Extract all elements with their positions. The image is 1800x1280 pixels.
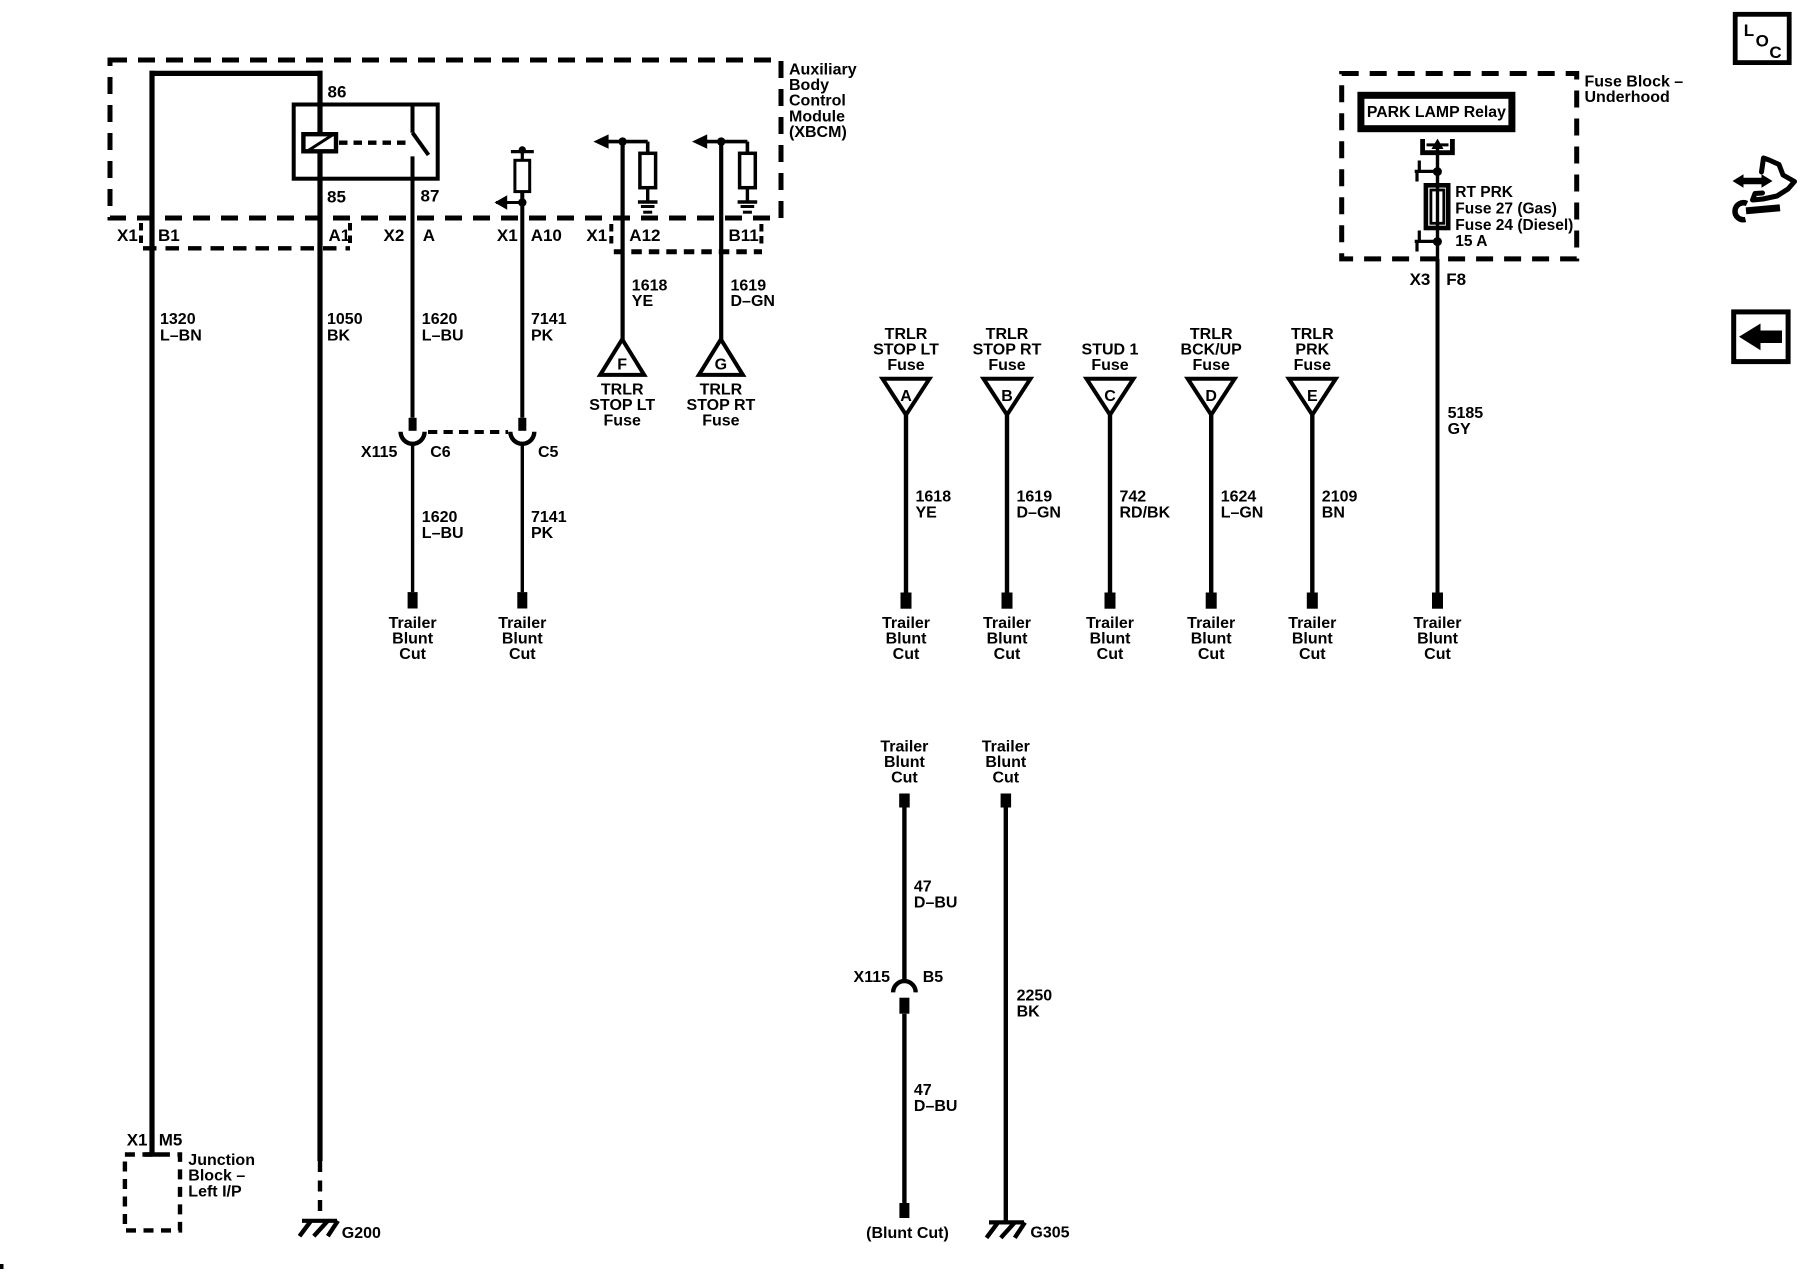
svg-text:C: C [1769,43,1781,62]
svg-text:F: F [617,357,627,374]
svg-text:D–BU: D–BU [914,1098,958,1115]
svg-text:X115: X115 [854,969,891,986]
svg-text:7141: 7141 [531,311,567,328]
svg-text:O: O [1756,31,1769,50]
svg-text:Blunt: Blunt [502,631,544,648]
svg-text:Module: Module [789,108,845,125]
svg-text:PRK: PRK [1295,342,1329,359]
svg-text:G200: G200 [342,1225,381,1242]
svg-text:Fuse: Fuse [702,412,739,429]
svg-text:STUD 1: STUD 1 [1082,342,1139,359]
svg-text:Cut: Cut [1424,646,1451,663]
svg-text:Auxiliary: Auxiliary [789,62,857,79]
svg-text:BK: BK [327,328,351,345]
svg-text:X3: X3 [1410,270,1431,289]
svg-text:X2: X2 [384,226,405,245]
svg-text:Trailer: Trailer [389,615,437,632]
svg-text:Fuse 27 (Gas): Fuse 27 (Gas) [1455,200,1557,217]
svg-text:L–GN: L–GN [1221,504,1264,521]
svg-text:A12: A12 [629,226,660,245]
svg-text:YE: YE [916,504,938,521]
svg-text:C5: C5 [538,444,559,461]
svg-text:Trailer: Trailer [882,615,930,632]
svg-text:TRLR: TRLR [1291,326,1334,343]
svg-text:1320: 1320 [160,311,196,328]
svg-text:Blunt: Blunt [1090,631,1132,648]
svg-text:L–BN: L–BN [160,328,202,345]
svg-text:86: 86 [328,83,347,102]
svg-text:A: A [423,226,435,245]
svg-text:Fuse: Fuse [604,412,641,429]
svg-text:F8: F8 [1446,270,1466,289]
svg-text:1620: 1620 [422,311,458,328]
svg-text:D–GN: D–GN [1017,504,1061,521]
svg-text:1619: 1619 [731,277,767,294]
svg-text:Blunt: Blunt [1191,631,1233,648]
svg-text:STOP LT: STOP LT [873,342,939,359]
svg-text:Trailer: Trailer [983,615,1031,632]
svg-text:G305: G305 [1030,1225,1069,1242]
svg-text:Blunt: Blunt [987,631,1029,648]
svg-text:TRLR: TRLR [1190,326,1233,343]
svg-text:YE: YE [632,293,654,310]
svg-text:BCK/UP: BCK/UP [1181,342,1243,359]
svg-text:Blunt: Blunt [985,754,1027,771]
svg-text:D–BU: D–BU [914,894,958,911]
svg-text:TRLR: TRLR [885,326,928,343]
svg-text:X1: X1 [586,226,607,245]
svg-text:Trailer: Trailer [1187,615,1235,632]
svg-text:5185: 5185 [1448,405,1484,422]
svg-text:RD/BK: RD/BK [1120,504,1171,521]
svg-text:Cut: Cut [399,646,426,663]
svg-text:Body: Body [789,77,829,94]
svg-text:Blunt: Blunt [1417,631,1459,648]
svg-text:Blunt: Blunt [392,631,434,648]
svg-text:Cut: Cut [1299,646,1326,663]
svg-text:2250: 2250 [1017,988,1053,1005]
svg-text:Cut: Cut [891,770,918,787]
svg-text:B5: B5 [923,969,944,986]
svg-text:C: C [1104,388,1116,405]
svg-text:1618: 1618 [632,277,668,294]
svg-text:Trailer: Trailer [880,739,928,756]
svg-text:X1: X1 [117,226,138,245]
svg-text:Cut: Cut [893,646,920,663]
svg-text:L–BU: L–BU [422,525,464,542]
svg-text:PK: PK [531,328,554,345]
svg-text:1619: 1619 [1017,489,1053,506]
svg-text:Block –: Block – [188,1168,245,1185]
svg-text:Cut: Cut [994,646,1021,663]
svg-text:X1: X1 [497,226,518,245]
svg-text:G: G [715,357,727,374]
svg-text:7141: 7141 [531,509,567,526]
svg-text:BK: BK [1017,1004,1041,1021]
svg-text:(Blunt Cut): (Blunt Cut) [866,1225,949,1242]
svg-text:C6: C6 [430,444,451,461]
svg-text:Cut: Cut [992,770,1019,787]
svg-text:Blunt: Blunt [886,631,928,648]
svg-text:2109: 2109 [1322,489,1358,506]
svg-text:STOP RT: STOP RT [973,342,1042,359]
svg-text:Control: Control [789,93,846,110]
svg-text:X1: X1 [127,1131,148,1150]
svg-text:Trailer: Trailer [498,615,546,632]
svg-text:15 A: 15 A [1455,233,1487,250]
svg-text:(XBCM): (XBCM) [789,124,847,141]
svg-text:X115: X115 [361,444,398,461]
svg-text:B1: B1 [158,226,180,245]
svg-text:Underhood: Underhood [1585,89,1670,106]
svg-text:D: D [1205,388,1217,405]
svg-text:BN: BN [1322,504,1345,521]
svg-text:GY: GY [1448,421,1471,438]
svg-text:Trailer: Trailer [1288,615,1336,632]
svg-text:M5: M5 [159,1131,183,1150]
svg-text:Fuse: Fuse [1294,357,1331,374]
svg-text:Cut: Cut [1097,646,1124,663]
svg-text:Blunt: Blunt [884,754,926,771]
svg-text:Trailer: Trailer [1086,615,1134,632]
svg-text:RT PRK: RT PRK [1455,184,1514,201]
svg-text:1618: 1618 [916,489,952,506]
svg-text:Fuse Block –: Fuse Block – [1585,74,1684,91]
svg-text:PK: PK [531,525,554,542]
svg-text:Fuse: Fuse [988,357,1025,374]
svg-text:D–GN: D–GN [731,293,775,310]
svg-text:1624: 1624 [1221,489,1257,506]
svg-text:Cut: Cut [1198,646,1225,663]
svg-text:A: A [900,388,912,405]
svg-text:L–BU: L–BU [422,328,464,345]
svg-text:1050: 1050 [327,311,363,328]
svg-text:Junction: Junction [188,1152,255,1169]
svg-text:TRLR: TRLR [986,326,1029,343]
svg-text:E: E [1307,388,1318,405]
svg-text:Fuse: Fuse [887,357,924,374]
svg-text:47: 47 [914,878,932,895]
svg-text:85: 85 [327,188,346,207]
svg-text:Fuse: Fuse [1091,357,1128,374]
svg-text:Trailer: Trailer [1413,615,1461,632]
svg-text:47: 47 [914,1082,932,1099]
svg-text:Blunt: Blunt [1292,631,1334,648]
svg-text:B: B [1001,388,1013,405]
svg-text:Fuse 24 (Diesel): Fuse 24 (Diesel) [1455,217,1573,234]
svg-text:87: 87 [421,187,440,206]
svg-text:742: 742 [1120,489,1147,506]
svg-text:Left I/P: Left I/P [188,1184,242,1201]
svg-text:Trailer: Trailer [982,739,1030,756]
svg-text:PARK LAMP Relay: PARK LAMP Relay [1367,104,1506,121]
svg-text:Cut: Cut [509,646,536,663]
svg-text:B11: B11 [729,226,759,245]
svg-text:L: L [1744,21,1754,40]
svg-text:A10: A10 [531,226,562,245]
svg-text:1620: 1620 [422,509,458,526]
svg-text:A1: A1 [329,226,351,245]
svg-text:Fuse: Fuse [1193,357,1230,374]
